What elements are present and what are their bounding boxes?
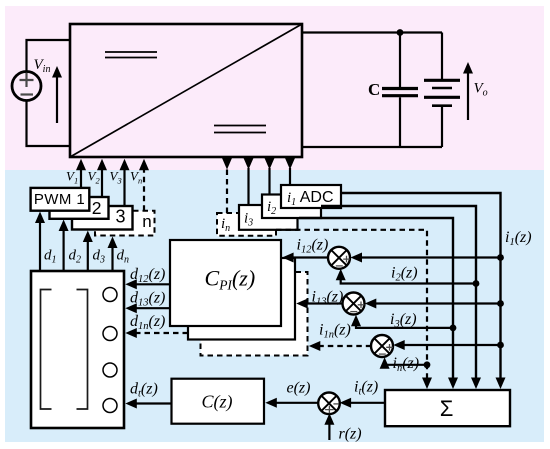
- wire d13: [133, 307, 170, 309]
- pink panel: [5, 6, 544, 170]
- wire i3 to sum13: [356, 322, 453, 328]
- arrow Vo: [467, 72, 469, 120]
- node output top: [397, 29, 404, 36]
- node i1 branch a: [497, 254, 504, 261]
- wire output top: [302, 31, 442, 33]
- selector box: [31, 271, 124, 428]
- node i1 branch c: [497, 342, 504, 349]
- C(z) box: [172, 379, 265, 424]
- wire i2 from ADC: [321, 206, 476, 380]
- summing junction e: [318, 393, 340, 415]
- wire Vin top: [27, 40, 72, 72]
- svg-text:2: 2: [92, 198, 102, 218]
- wire in to sum1n: [385, 363, 427, 366]
- pwm box 1: [31, 188, 90, 211]
- svg-text:dt(z): dt(z): [130, 381, 158, 400]
- node i2 branch: [473, 280, 480, 287]
- wire i_3 sense: [247, 168, 249, 204]
- capacitor C: [399, 33, 401, 88]
- selector port 2: [103, 327, 117, 341]
- wire i12 out: [290, 256, 328, 258]
- node i1 branch b: [497, 300, 504, 307]
- svg-text:Σ: Σ: [440, 396, 454, 421]
- selector port 1: [103, 288, 117, 302]
- svg-text:3: 3: [115, 207, 125, 227]
- svg-text:i1(z): i1(z): [505, 229, 532, 248]
- wire V1: [80, 167, 82, 188]
- wire Vn dashed: [143, 167, 145, 211]
- wire i1 to sum12: [358, 256, 501, 258]
- summing junction i1n: [371, 335, 393, 357]
- summing junction i13: [343, 293, 365, 315]
- svg-text:r(z): r(z): [339, 426, 362, 443]
- wire dt: [133, 402, 172, 404]
- svg-text:in(z): in(z): [393, 355, 420, 374]
- wire i1 to sum1n: [400, 344, 501, 346]
- wire i13 out: [305, 302, 343, 304]
- wire i_n sense dashed: [226, 168, 228, 213]
- wire d1n dashed: [133, 332, 188, 334]
- adc box i_3: [239, 205, 298, 230]
- svg-text:i2(z): i2(z): [391, 265, 418, 284]
- wire i3 from ADC: [299, 218, 453, 380]
- wire V2: [101, 167, 103, 197]
- svg-text:d13(z): d13(z): [130, 290, 165, 309]
- svg-text:d12(z): d12(z): [130, 266, 165, 285]
- sigma box: [385, 390, 510, 426]
- svg-text:C(z): C(z): [202, 392, 233, 413]
- wire in from ADC dashed: [276, 230, 427, 380]
- wire r(z): [328, 421, 330, 440]
- svg-text:n: n: [142, 212, 151, 231]
- svg-text:d1n(z): d1n(z): [130, 313, 165, 332]
- wire i_1 sense: [289, 168, 291, 185]
- converter diagonal: [70, 24, 302, 157]
- bracket left: [41, 290, 52, 410]
- wire d2: [62, 230, 64, 271]
- wire d12: [133, 283, 170, 285]
- cpi box 1: [170, 240, 281, 326]
- cpi box 3 dashed: [201, 272, 308, 356]
- wire d1: [39, 221, 41, 271]
- wire V3: [123, 167, 125, 206]
- adc box i_2: [262, 195, 321, 219]
- pwm box 2: [50, 197, 109, 219]
- selector port 3: [103, 363, 117, 377]
- adc box i_1 ADC: [281, 185, 341, 208]
- wire i1 to sum13: [372, 302, 501, 304]
- arrow Vin direction: [56, 75, 58, 123]
- summing junction i12: [328, 247, 350, 269]
- battery B1: [441, 33, 443, 80]
- wire d3: [87, 240, 89, 271]
- wire i2 to sum12: [341, 276, 476, 284]
- wire i_2 sense: [268, 168, 270, 195]
- wire Vin bottom: [27, 101, 72, 147]
- wire dn: [111, 246, 113, 271]
- voltage source Vin: [12, 72, 41, 101]
- svg-text:i3(z): i3(z): [390, 311, 417, 330]
- minus sign of source: [21, 93, 34, 95]
- blue panel: [5, 170, 544, 442]
- wire it: [347, 402, 385, 404]
- dc symbol output: [214, 126, 266, 133]
- svg-text:e(z): e(z): [287, 380, 311, 397]
- wire output bottom: [302, 146, 442, 148]
- dc symbol input: [105, 52, 157, 58]
- node i3 branch: [450, 325, 457, 332]
- wire i1 from ADC: [341, 193, 501, 380]
- svg-text:PWM 1: PWM 1: [34, 191, 85, 208]
- cpi box 2: [188, 258, 295, 340]
- pwm box 3: [72, 206, 133, 230]
- bracket right: [77, 290, 88, 410]
- plus sign of source: [20, 73, 34, 87]
- pwm box n dashed: [95, 211, 155, 236]
- svg-text:it(z): it(z): [354, 379, 378, 398]
- selector port 4: [103, 399, 117, 413]
- svg-text:C: C: [368, 80, 380, 99]
- converter U1 box: [70, 24, 302, 157]
- wire i1n out dashed: [317, 345, 371, 347]
- wire e(z): [273, 402, 319, 404]
- adc box i_n dashed: [217, 213, 276, 236]
- node in branch: [424, 361, 431, 368]
